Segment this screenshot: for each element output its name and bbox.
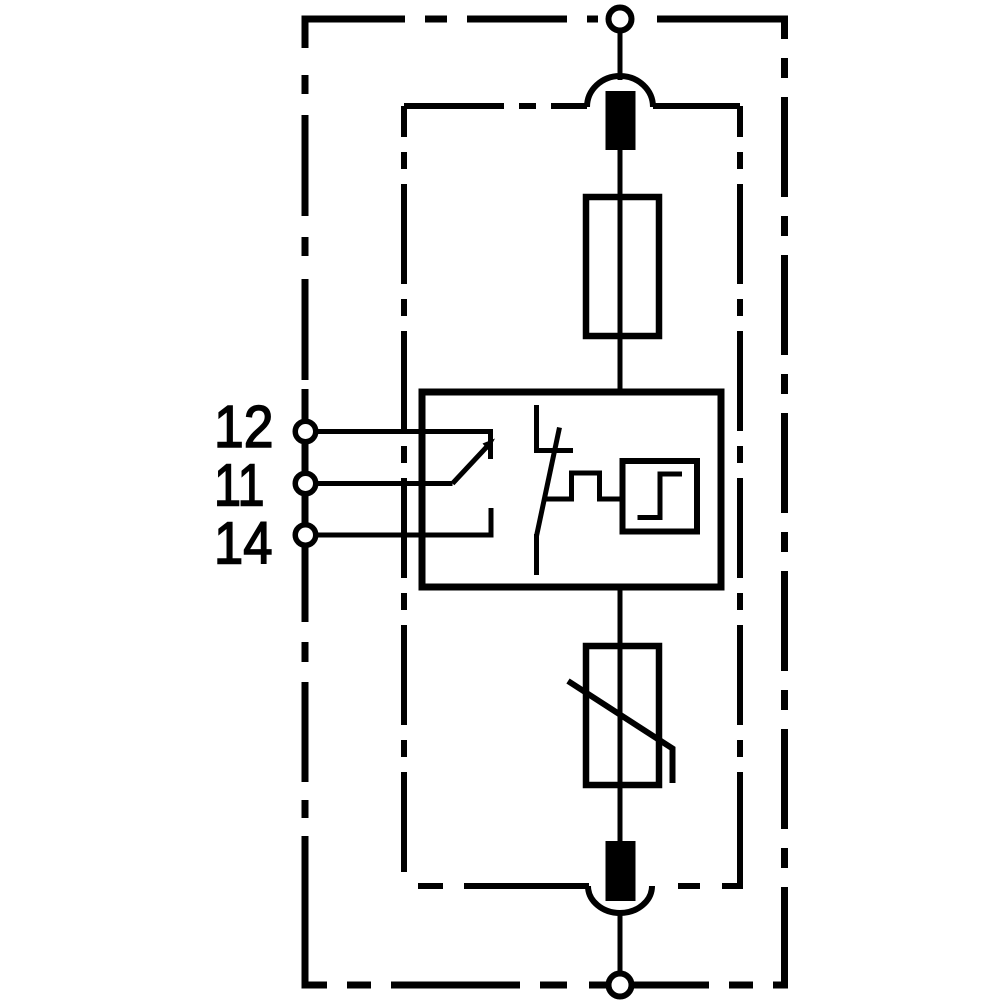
outer enclosure dash-dot border, top edge left part — [305, 16, 598, 23]
wire from top terminal to plug connector — [618, 28, 623, 80]
bottom ground terminal circle — [609, 974, 632, 997]
terminal 11 circle — [295, 473, 316, 494]
wire from terminal 12 to NC contact — [313, 429, 491, 434]
NC contact bar of terminal 12 — [488, 429, 493, 459]
trigger pulse line — [544, 473, 623, 499]
thermal disconnector upper lead — [534, 405, 539, 451]
signalling unit box — [422, 392, 721, 587]
svg-text:12: 12 — [214, 394, 274, 460]
thermal disconnector contact tick — [534, 448, 573, 453]
outer enclosure dash-dot border, bottom edge — [302, 982, 789, 989]
wire from bottom connector to bottom terminal — [618, 910, 623, 976]
bottom plug-in connector contact blade (filled) — [606, 841, 636, 901]
thermal disconnector blade — [537, 428, 560, 537]
top plug-in connector arc — [587, 76, 653, 107]
outer enclosure dash-dot border, left edge — [302, 16, 309, 989]
inner protective-module dashed border, left edge — [401, 106, 407, 884]
terminal 12 circle — [295, 421, 316, 442]
wire from top connector through fuse to signalling box — [618, 140, 623, 392]
inner protective-module dashed border, top edge left part — [404, 103, 587, 109]
signal output box — [623, 461, 698, 532]
wire from terminal 14 to NO contact — [313, 533, 491, 538]
terminal label 14 — [214, 511, 273, 577]
varistor diagonal stroke — [568, 681, 673, 783]
fuse F1 body — [586, 197, 659, 336]
NO contact bracket of terminal 14 — [489, 508, 494, 538]
inner protective-module dashed border, right edge — [737, 106, 743, 889]
thermal disconnector lower lead — [534, 534, 539, 575]
inner protective-module dashed border, bottom edge left dashes — [418, 883, 589, 889]
terminal label 12 — [214, 394, 274, 460]
terminal 14 circle — [295, 525, 316, 546]
outer enclosure dash-dot border, top edge right part — [657, 16, 785, 23]
inner protective-module dashed border, top edge right part — [653, 103, 740, 109]
varistor body — [586, 646, 659, 785]
top plug-in connector contact blade (filled) — [606, 91, 636, 150]
changeover switch lever — [453, 446, 489, 484]
top phase terminal circle — [609, 8, 632, 31]
outer enclosure dash-dot border, right edge — [781, 16, 788, 986]
svg-text:14: 14 — [214, 511, 273, 577]
step function glyph — [638, 474, 683, 518]
terminal label 11 — [214, 453, 265, 519]
svg-text:11: 11 — [214, 453, 265, 519]
wire from terminal 11 to switch pivot — [313, 481, 453, 486]
inner protective-module dashed border, bottom edge right dashes — [678, 883, 740, 889]
bottom plug-in connector arc — [588, 886, 652, 913]
wire from signalling box to varistor — [618, 587, 623, 846]
changeover switch lever arrowhead — [483, 439, 496, 451]
